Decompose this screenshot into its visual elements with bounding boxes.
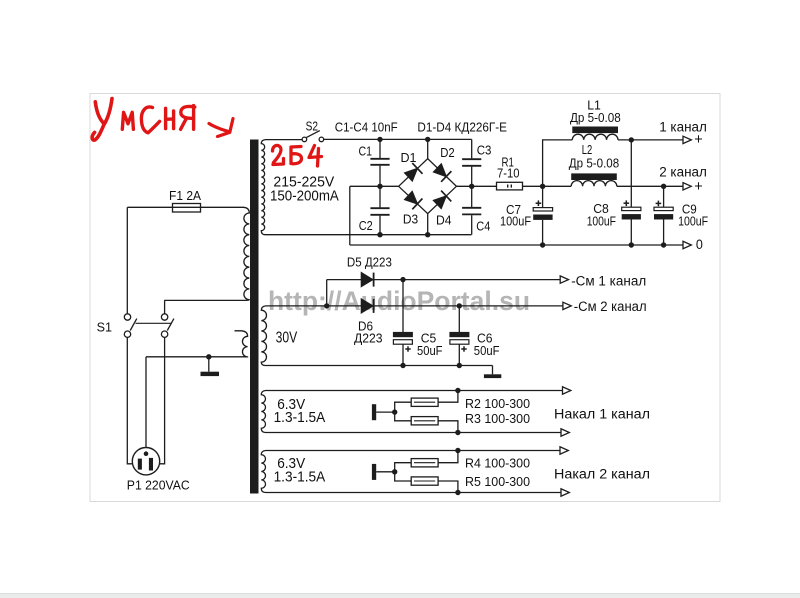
label R1 — [502, 156, 514, 170]
terminal nakal1 top — [563, 387, 571, 394]
label C6 value 50uF — [474, 344, 500, 358]
node C9 / 0 rail — [661, 242, 666, 247]
wire D6 line right — [375, 305, 563, 307]
capacitor C8 — [622, 140, 641, 245]
node mid / C3C4 — [469, 184, 474, 189]
label D2 — [440, 146, 455, 160]
label plus ch1 — [694, 132, 702, 148]
node L2 out / C9 — [661, 184, 666, 189]
label D5 D223 — [347, 256, 392, 270]
svg-text:100uF: 100uF — [678, 214, 708, 228]
resistor R5 — [395, 472, 458, 493]
inductor L1 — [572, 127, 618, 140]
resistor R4 — [395, 451, 458, 472]
transformer primary winding — [164, 207, 249, 300]
label 1.3-1.5A (2) — [274, 469, 326, 486]
svg-text:R3 100-300: R3 100-300 — [465, 412, 530, 426]
svg-text:50uF: 50uF — [417, 344, 443, 358]
svg-text:D5 Д223: D5 Д223 — [347, 256, 392, 270]
transformer screen winding — [146, 331, 248, 357]
svg-text:S1: S1 — [97, 320, 112, 334]
wire S1 right pole to plug — [152, 337, 165, 463]
label D3 — [403, 213, 418, 227]
ground (heater 2) — [372, 464, 395, 480]
node R1 out / C7 / L1 feed — [540, 184, 545, 189]
transformer HV secondary winding 215-225V — [261, 140, 471, 235]
inductor L2 — [571, 173, 617, 186]
terminal 2 kanal + — [683, 183, 691, 190]
wire top rail — [324, 138, 472, 140]
watermark AudioPortal.su — [268, 286, 532, 318]
wire screen winding to plug center pin — [145, 357, 147, 452]
diode D3 — [405, 191, 423, 209]
label Nakal 2 kanal — [554, 466, 650, 481]
label S1 — [97, 320, 112, 334]
svg-text:-См 1 канал: -См 1 канал — [571, 274, 646, 289]
wire primary bottom riser to S1 — [164, 300, 166, 313]
label C6 — [477, 332, 493, 346]
label C3 — [477, 144, 492, 158]
wire node up to L1 — [543, 140, 573, 186]
svg-text:C2: C2 — [359, 219, 373, 233]
svg-text:7-10: 7-10 — [497, 166, 520, 180]
wire 0 rail — [350, 244, 683, 246]
label S2 — [306, 120, 318, 134]
wire riser to D5 line — [326, 280, 328, 306]
label 30V — [276, 330, 298, 347]
wire bridge bottom riser — [427, 214, 429, 235]
wire D5 line left — [327, 279, 362, 281]
label Nakal 1 kanal — [554, 406, 650, 421]
svg-text:1.3-1.5A: 1.3-1.5A — [274, 409, 326, 426]
capacitor C6 — [449, 306, 469, 366]
terminal 1 kanal + — [683, 136, 691, 143]
node R4 top — [455, 448, 460, 453]
red annotation arrow — [209, 119, 233, 137]
label C9 value 100uF — [678, 214, 708, 228]
svg-text:C1-C4 10nF: C1-C4 10nF — [335, 120, 398, 134]
svg-text:D3: D3 — [403, 213, 418, 227]
diode D6 — [361, 299, 373, 313]
label C4 — [476, 219, 490, 233]
svg-text:Др 5-0.08: Др 5-0.08 — [570, 111, 621, 125]
diode D2 — [434, 164, 452, 182]
label C5 value 50uF — [417, 344, 443, 358]
label C1 — [359, 144, 373, 158]
resistor R1 — [497, 182, 523, 190]
label L2 — [582, 143, 593, 157]
svg-text:-См 2 канал: -См 2 канал — [574, 299, 647, 314]
node heater2 resistor join — [392, 469, 397, 474]
resistor R2 — [395, 391, 458, 413]
label 215-225V — [273, 174, 334, 191]
label L1 — [587, 98, 601, 112]
label -Sm 2 kanal — [574, 299, 647, 314]
svg-text:F1 2A: F1 2A — [169, 189, 202, 203]
svg-text:Накал 1 канал: Накал 1 канал — [554, 406, 650, 421]
capacitor C9 — [654, 186, 673, 245]
switch S1 (double pole) — [124, 314, 174, 338]
label 1.3-1.5A (1) — [274, 409, 326, 426]
svg-text:30V: 30V — [276, 330, 298, 347]
node C6 top — [457, 303, 462, 308]
wire D6 line left — [327, 305, 362, 307]
terminal nakal2 bottom — [561, 489, 569, 496]
diode D5 — [361, 273, 373, 287]
svg-text:50uF: 50uF — [474, 344, 500, 358]
ground (heater 1) — [372, 404, 395, 420]
label 150-200mA — [270, 188, 339, 205]
label R4 100-300 — [465, 456, 530, 470]
node C5 top — [400, 277, 405, 282]
label C8 — [593, 202, 609, 216]
wire 0-rail riser — [349, 186, 351, 245]
terminal 0 — [683, 241, 691, 248]
label C7 value 100uF — [500, 215, 531, 229]
wire left riser to S1 — [126, 207, 128, 313]
label -Sm 1 kanal — [571, 274, 646, 289]
capacitor C2 — [370, 186, 389, 234]
label 0 — [696, 237, 703, 252]
wire bridge right to R1 — [456, 185, 496, 187]
transformer core — [250, 140, 259, 494]
label plus ch2 — [694, 179, 702, 195]
svg-text:2 канал: 2 канал — [659, 165, 707, 180]
transformer 6.3V winding 1 — [261, 391, 562, 433]
label R2 100-300 — [465, 397, 530, 411]
transformer 30V winding — [261, 306, 492, 366]
label C9 — [682, 203, 697, 217]
capacitor C5 — [393, 280, 413, 366]
svg-text:C4: C4 — [476, 219, 490, 233]
terminal -Sm 1 kanal — [560, 276, 568, 283]
svg-text:C1: C1 — [359, 144, 373, 158]
fuse F1 — [173, 204, 201, 213]
label R3 100-300 — [465, 412, 530, 426]
label C8 value 100uF — [587, 214, 617, 228]
wire bridge left to C1C2 — [350, 185, 399, 187]
label C5 — [421, 332, 437, 346]
label D6 — [358, 320, 373, 334]
red annotation '2B4' — [273, 145, 322, 166]
wire R1 to node — [523, 185, 543, 187]
label 6.3V (1) — [277, 396, 305, 413]
node L1 out / C8 — [629, 137, 634, 142]
switch S2 — [302, 131, 324, 142]
capacitor C7 — [533, 186, 552, 245]
label 7-10 — [497, 166, 520, 180]
svg-text:C3: C3 — [477, 144, 492, 158]
node C6 / 30V bottom — [457, 363, 462, 368]
svg-text:Накал 2 канал: Накал 2 канал — [554, 466, 650, 481]
node 30V top / riser — [324, 303, 329, 308]
terminal nakal2 top — [560, 447, 568, 454]
svg-text:D4: D4 — [436, 214, 452, 228]
label L2 value Dr 5-0.08 — [569, 156, 619, 170]
ground (bias) — [484, 366, 501, 379]
terminal nakal1 bottom — [561, 429, 569, 436]
capacitor C1 — [370, 139, 389, 186]
node heater1 resistor join — [392, 409, 397, 414]
capacitor C4 — [462, 186, 481, 234]
label 6.3V (2) — [277, 455, 305, 472]
label L1 value Dr 5-0.08 — [570, 111, 621, 125]
label D1-D4 KD226G-E — [417, 120, 507, 134]
diode D1 — [405, 163, 423, 181]
label 2 kanal — [659, 165, 707, 180]
node R5 bottom — [455, 490, 460, 495]
diode D4 — [433, 191, 451, 209]
resistor R3 — [395, 412, 458, 432]
svg-text:+: + — [694, 179, 702, 195]
label C2 — [359, 219, 373, 233]
node C5 / 30V bottom — [400, 363, 405, 368]
svg-text:L2: L2 — [582, 143, 593, 157]
label D4 — [436, 214, 452, 228]
bridge diamond wires — [399, 159, 457, 214]
transformer 6.3V winding 2 — [261, 451, 561, 493]
wire L2 out — [617, 185, 683, 187]
svg-text:R4 100-300: R4 100-300 — [465, 456, 530, 470]
svg-text:P1 220VAC: P1 220VAC — [127, 478, 190, 492]
node C8 / 0 rail — [629, 242, 634, 247]
svg-text:0: 0 — [696, 237, 703, 252]
red annotation 'U menya' — [92, 99, 195, 141]
wire fuse line — [127, 206, 243, 208]
node C2 / winding bottom — [377, 232, 382, 237]
node R2 top — [455, 388, 460, 393]
node C7 / 0 rail — [540, 242, 545, 247]
label D6 value D223 — [354, 332, 383, 346]
svg-text:100uF: 100uF — [500, 215, 531, 229]
node top rail / bridge — [425, 137, 430, 142]
svg-text:D2: D2 — [440, 146, 455, 160]
node top rail / C1 — [377, 137, 382, 142]
ground (primary screen) — [201, 354, 220, 376]
wire D5 line right — [375, 279, 561, 281]
label D1 — [401, 151, 417, 165]
wire mid to L2 — [543, 185, 572, 187]
svg-text:D1-D4 КД226Г-Е: D1-D4 КД226Г-Е — [417, 120, 507, 134]
wire bridge top riser — [427, 139, 429, 158]
capacitor C3 — [462, 139, 481, 186]
label 1 kanal — [659, 120, 707, 135]
node R3 bottom — [455, 430, 460, 435]
node mid / C1C2 — [377, 184, 382, 189]
terminal -Sm 2 kanal — [563, 302, 571, 309]
svg-text:Др 5-0.08: Др 5-0.08 — [569, 156, 619, 170]
label C1-C4 10nF — [335, 120, 398, 134]
wire S1 left pole to plug — [127, 337, 139, 463]
svg-text:S2: S2 — [306, 120, 318, 134]
svg-text:1.3-1.5A: 1.3-1.5A — [274, 469, 326, 486]
label C7 — [506, 203, 521, 217]
node bridge / winding bottom — [425, 232, 430, 237]
svg-text:150-200mA: 150-200mA — [270, 188, 339, 205]
label P1 220VAC — [127, 478, 190, 492]
svg-text:D1: D1 — [401, 151, 417, 165]
label F1 2A — [169, 189, 202, 203]
svg-text:http://AudioPortal.su: http://AudioPortal.su — [268, 286, 530, 316]
svg-text:+: + — [694, 132, 702, 148]
plug P1 — [132, 448, 159, 475]
label R5 100-300 — [465, 475, 530, 489]
wire L1 out — [618, 139, 683, 141]
svg-text:Д223: Д223 — [354, 332, 383, 346]
svg-text:100uF: 100uF — [587, 214, 617, 228]
svg-text:R2 100-300: R2 100-300 — [465, 397, 530, 411]
svg-text:R5 100-300: R5 100-300 — [465, 475, 530, 489]
